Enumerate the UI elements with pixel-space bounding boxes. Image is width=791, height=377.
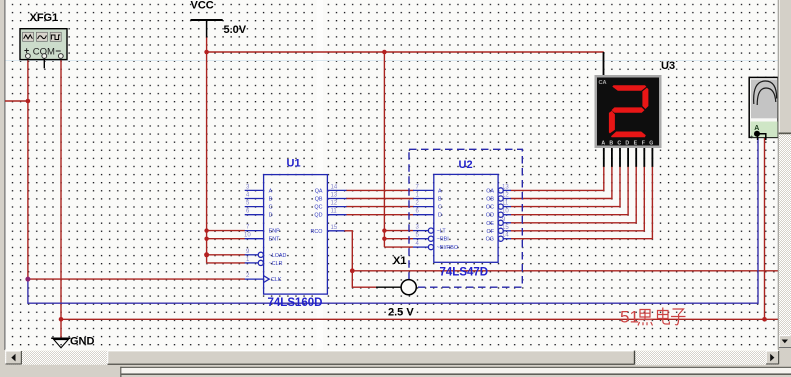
wire VCC to U1 ENP bbox=[207, 230, 245, 232]
svg-text:15: 15 bbox=[502, 225, 509, 231]
svg-text:VCC: VCC bbox=[191, 0, 214, 12]
decoder U2 74LS47D bbox=[413, 174, 511, 262]
svg-text:A: A bbox=[601, 141, 605, 147]
svg-text:C: C bbox=[438, 205, 442, 211]
wire probe black lead bbox=[376, 286, 401, 288]
junction on VCC rail at U2 feed bbox=[382, 50, 387, 55]
svg-text:+: + bbox=[750, 135, 754, 141]
wire U1 RCO net bbox=[344, 231, 376, 287]
svg-text:51: 51 bbox=[620, 308, 639, 327]
svg-text:U1: U1 bbox=[287, 158, 301, 170]
pin A stub bbox=[413, 189, 434, 191]
hanzi dian bbox=[658, 308, 670, 325]
digit 2 segment G bbox=[612, 107, 645, 112]
svg-text:C: C bbox=[617, 141, 621, 147]
svg-text:A: A bbox=[438, 188, 442, 194]
svg-text:10: 10 bbox=[244, 233, 251, 239]
pin OG bubble and stub bbox=[498, 236, 503, 241]
digit 2 segment A bbox=[612, 85, 646, 91]
svg-text:QA: QA bbox=[315, 188, 323, 194]
pin ~CLR stub with bubble bbox=[245, 262, 259, 264]
pin CLK stub with clock triangle bbox=[245, 278, 264, 280]
pin OC bubble and stub bbox=[498, 204, 503, 209]
svg-text:~BI/RBO: ~BI/RBO bbox=[437, 245, 458, 251]
function generator XFG1 bbox=[20, 29, 67, 69]
svg-text:12: 12 bbox=[502, 193, 509, 199]
pin OE bubble and stub bbox=[498, 220, 503, 225]
junction VCC drop at U2 ~LT bbox=[382, 228, 386, 232]
digit 2 segment E bbox=[609, 111, 615, 134]
svg-text:10: 10 bbox=[502, 209, 509, 215]
pin ~RBI stub with bubble bbox=[413, 238, 428, 240]
svg-text:74LS47D: 74LS47D bbox=[440, 267, 489, 279]
svg-text:B: B bbox=[438, 197, 442, 203]
junction ground net at XFG1 minus wire bbox=[59, 317, 64, 322]
wire VCC to U1 ~LOAD bbox=[207, 254, 245, 256]
pin OB bubble and stub bbox=[498, 196, 503, 201]
wire U1 QA to U2 A bbox=[346, 189, 414, 191]
junction VCC at ENP bbox=[204, 228, 208, 232]
wire U2 OD to display D bbox=[511, 167, 629, 215]
pin QB stub bbox=[327, 198, 346, 200]
hanzi zi bbox=[671, 309, 686, 325]
selection dashed box around U2 bbox=[409, 149, 522, 287]
power VCC symbol bbox=[191, 20, 223, 38]
svg-text:A: A bbox=[269, 188, 273, 194]
svg-text:D: D bbox=[269, 213, 273, 219]
scrollbar left button bbox=[5, 351, 21, 365]
pin B stub bbox=[413, 198, 434, 200]
horizontal scrollbar bbox=[5, 350, 779, 365]
svg-text:B: B bbox=[609, 141, 613, 147]
wire ground net horizontal bbox=[61, 318, 779, 320]
svg-text:OB: OB bbox=[486, 197, 494, 203]
left window border bbox=[0, 0, 4, 377]
pin OD bubble and stub bbox=[498, 212, 503, 217]
pin B stub bbox=[245, 198, 264, 200]
wire blue net XFG1 plus to oscilloscope A bbox=[28, 137, 758, 303]
wire U1 QD to U2 D bbox=[346, 214, 414, 216]
pin RCO stub bbox=[327, 230, 344, 232]
wire U2 OC to display C bbox=[511, 167, 621, 207]
wire VCC to U2 ~LT bbox=[384, 230, 413, 232]
wire VCC to U1 ~CLR bbox=[207, 262, 245, 264]
svg-text:QB: QB bbox=[315, 197, 323, 203]
svg-text:ENT: ENT bbox=[269, 237, 280, 243]
wire VCC vertical feed to U1 control pins bbox=[206, 52, 208, 263]
wire XFG1 minus down to ground bbox=[60, 60, 62, 339]
svg-text:12: 12 bbox=[331, 201, 338, 207]
svg-text:11: 11 bbox=[331, 209, 338, 215]
svg-text:OA: OA bbox=[486, 188, 494, 194]
svg-text:74LS160D: 74LS160D bbox=[268, 297, 323, 309]
digit 2 segment D bbox=[611, 132, 646, 138]
oscilloscope instrument at right edge bbox=[749, 77, 778, 141]
svg-text:CA: CA bbox=[599, 80, 607, 86]
svg-text:13: 13 bbox=[502, 184, 509, 190]
svg-text:~LOAD: ~LOAD bbox=[269, 253, 287, 259]
svg-text:OC: OC bbox=[486, 205, 494, 211]
svg-text:OE: OE bbox=[486, 221, 494, 227]
svg-text:14: 14 bbox=[331, 184, 338, 190]
pin QA stub bbox=[327, 189, 346, 191]
scrollbar down button bbox=[779, 335, 791, 348]
svg-text:~LT: ~LT bbox=[437, 229, 447, 235]
svg-text:ENP: ENP bbox=[269, 229, 280, 235]
svg-text:F: F bbox=[642, 141, 645, 147]
pin ENP stub bbox=[245, 230, 264, 232]
wire VCC to U2 ~BI/RBO bbox=[384, 246, 413, 248]
svg-text:QC: QC bbox=[314, 205, 322, 211]
svg-text:U3: U3 bbox=[661, 60, 675, 72]
pin ENT stub bbox=[245, 238, 264, 240]
U1 pin names bbox=[269, 188, 323, 283]
wire U2 OE to display E bbox=[511, 167, 637, 223]
junction VCC at ~LOAD bbox=[204, 252, 209, 257]
bottom window pane strip bbox=[0, 365, 791, 377]
U1 pin numbers bbox=[244, 184, 338, 279]
wire U2 OA to display A bbox=[511, 167, 604, 191]
wire stub to off-page left bbox=[5, 100, 28, 102]
scope screen arcs bbox=[754, 81, 777, 105]
wire RCO net horizontal to right edge bbox=[352, 270, 778, 272]
wire clock net to U1 CLK bbox=[28, 278, 245, 280]
pin ~LT stub with bubble bbox=[413, 230, 428, 232]
wire XFG1 COM stub bbox=[43, 59, 45, 69]
hanzi hei bbox=[638, 310, 653, 326]
svg-text:OD: OD bbox=[486, 213, 494, 219]
probe X1 bbox=[401, 280, 416, 295]
wire U1 QC to U2 C bbox=[346, 206, 414, 208]
U2 pin names bbox=[437, 188, 495, 251]
junction at off-page stub bbox=[26, 99, 31, 104]
scrollbar thumb bbox=[107, 351, 634, 365]
junction ground net at scope red wire bbox=[762, 317, 767, 322]
svg-text:5.0V: 5.0V bbox=[224, 24, 247, 36]
svg-text:C: C bbox=[269, 205, 273, 211]
pin D stub bbox=[245, 214, 264, 216]
svg-text:2.5 V: 2.5 V bbox=[388, 307, 414, 319]
svg-text:RCO: RCO bbox=[311, 229, 323, 235]
svg-text:D: D bbox=[438, 213, 442, 219]
svg-text:CLK: CLK bbox=[271, 277, 282, 283]
svg-text:D: D bbox=[625, 141, 629, 147]
wire U2 OB to display B bbox=[511, 167, 612, 199]
svg-text:QD: QD bbox=[314, 213, 322, 219]
svg-text:E: E bbox=[634, 141, 638, 147]
scope terminal bbox=[754, 131, 760, 137]
svg-text:G: G bbox=[649, 141, 653, 147]
pin ~BI/RBO stub with bubble bbox=[413, 246, 428, 248]
pin CA top bbox=[603, 52, 605, 75]
pin C stub bbox=[413, 206, 434, 208]
wire XFG1 plus output down bbox=[27, 60, 29, 280]
pin ~LOAD stub with bubble bbox=[245, 254, 259, 256]
svg-text:OF: OF bbox=[487, 229, 495, 235]
junction on VCC rail at U1 feed bbox=[204, 50, 209, 55]
svg-text:~RBI: ~RBI bbox=[437, 237, 449, 243]
segment letter labels A-G bbox=[601, 141, 653, 147]
svg-text:~CLR: ~CLR bbox=[269, 261, 283, 267]
junction clock net and blue net bbox=[25, 277, 30, 282]
pin OA bubble and stub bbox=[498, 188, 503, 193]
svg-text:U2: U2 bbox=[459, 159, 473, 171]
wire VCC rail 5V to display CA bbox=[207, 37, 604, 52]
svg-text:GND: GND bbox=[70, 336, 95, 348]
svg-text:14: 14 bbox=[502, 233, 509, 239]
svg-text:B: B bbox=[269, 197, 273, 203]
svg-text:X1: X1 bbox=[393, 255, 406, 267]
svg-text:XFG1: XFG1 bbox=[30, 12, 59, 24]
pin QC stub bbox=[327, 206, 346, 208]
pin D stub bbox=[413, 214, 434, 216]
vertical scrollbar bbox=[779, 0, 791, 377]
wire U1 QB to U2 B bbox=[346, 198, 414, 200]
svg-text:OG: OG bbox=[486, 237, 494, 243]
wire oscilloscope red terminal to ground net bbox=[764, 138, 766, 319]
pin OF bubble and stub bbox=[498, 228, 503, 233]
svg-text:11: 11 bbox=[502, 201, 509, 207]
svg-text:13: 13 bbox=[331, 193, 338, 199]
scrollbar right button bbox=[766, 351, 779, 365]
wire VCC to U2 ~RBI bbox=[384, 238, 413, 240]
display pins bbox=[604, 52, 653, 167]
counter U1 74LS160D bbox=[245, 175, 347, 295]
pin QD stub bbox=[327, 214, 346, 216]
pin A stub bbox=[245, 189, 264, 191]
canvas right edge line bbox=[777, 0, 779, 350]
wire VCC drop to U2 bbox=[383, 52, 385, 247]
watermark 51 black electronics bbox=[620, 308, 686, 327]
pale blue page boundary line bbox=[5, 60, 778, 61]
pin C stub bbox=[245, 206, 264, 208]
junction RCO net to probe bbox=[350, 268, 355, 273]
U2 pin numbers bbox=[416, 184, 510, 247]
wire VCC to U1 ENT bbox=[207, 238, 245, 240]
junction VCC drop at U2 ~RBI bbox=[382, 237, 386, 241]
ground symbol bbox=[51, 338, 70, 348]
digit 2 segment B bbox=[642, 88, 648, 109]
wire U2 OG to display G bbox=[511, 167, 653, 239]
junction VCC at ENT bbox=[204, 237, 208, 241]
seven segment display U3 bbox=[595, 52, 662, 167]
svg-text:15: 15 bbox=[331, 225, 338, 231]
wire scope terminal elbow bbox=[757, 134, 766, 140]
page gap white column bbox=[317, 0, 323, 350]
wire U2 OF to display F bbox=[511, 167, 645, 231]
